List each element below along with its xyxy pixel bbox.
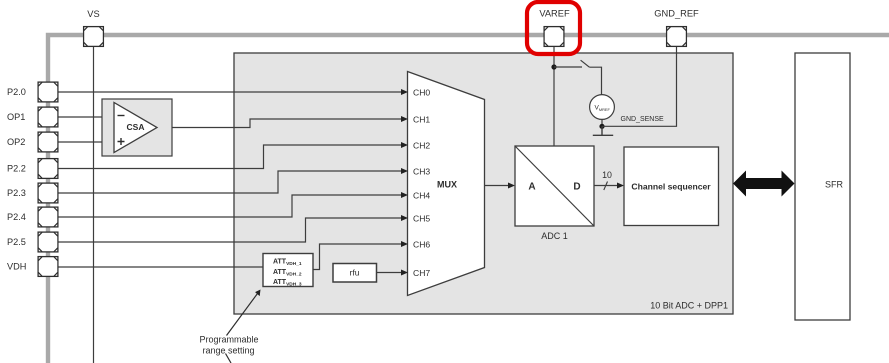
- arrowhead CH5: [401, 215, 408, 221]
- pin P2.5: [38, 232, 58, 252]
- svg-text:VDH: VDH: [7, 262, 26, 272]
- multiplexer MUX: [408, 72, 485, 296]
- svg-text:CH3: CH3: [413, 167, 430, 177]
- svg-text:D: D: [573, 182, 580, 193]
- block Channel sequencer: [624, 147, 719, 226]
- wire VDH to ATT block: [59, 266, 264, 268]
- svg-text:CH2: CH2: [413, 141, 430, 151]
- arrowhead CH1: [401, 116, 408, 122]
- svg-text:Programmable: Programmable: [199, 335, 258, 345]
- wire to switch: [554, 66, 582, 68]
- pin GND_REF: [667, 27, 687, 47]
- wire P2.2 to CH2: [59, 145, 402, 169]
- svg-text:GND_SENSE: GND_SENSE: [621, 116, 665, 123]
- attenuator block ATT_VDH: [263, 254, 313, 287]
- pin VAREF: [544, 27, 564, 47]
- junction VAREF node: [551, 64, 556, 69]
- op-amp CSA enclosure: [102, 99, 172, 156]
- pin P2.4: [38, 207, 58, 227]
- svg-text:VAREF: VAREF: [539, 9, 570, 19]
- op-amp CSA triangle: [114, 103, 157, 153]
- wire rfu to CH7: [377, 272, 402, 274]
- pin VDH: [38, 257, 58, 277]
- svg-text:P2.0: P2.0: [7, 87, 26, 97]
- pin P2.0: [38, 82, 58, 102]
- pin P2.2: [38, 159, 58, 179]
- junction GND_SENSE node: [599, 124, 604, 129]
- leader line downward: [226, 354, 232, 363]
- voltage source VMREF: [590, 95, 615, 120]
- wire VS vertical: [93, 47, 95, 363]
- svg-text:ADC 1: ADC 1: [541, 231, 568, 241]
- svg-text:A: A: [528, 182, 535, 193]
- arrowhead CH4: [401, 192, 408, 198]
- svg-text:CH0: CH0: [413, 88, 430, 98]
- wire OP2 to CSA non-inverting input: [59, 141, 115, 143]
- ground symbol: [593, 126, 613, 135]
- wire VMREF to GND_SENSE node: [601, 119, 603, 126]
- wire ADC output to Channel sequencer: [594, 185, 618, 187]
- switch (open) blade: [581, 60, 590, 67]
- arrowhead CH2: [401, 142, 408, 148]
- pin VS: [84, 27, 104, 47]
- wire MUX output to ADC: [485, 185, 509, 187]
- svg-text:CH6: CH6: [413, 240, 430, 250]
- pin OP1: [38, 107, 58, 127]
- wire GND_SENSE to GND_REF: [602, 47, 677, 126]
- wire P2.0 to CH0: [59, 91, 402, 93]
- arrowhead Channel sequencer input: [617, 183, 624, 189]
- svg-text:P2.2: P2.2: [7, 164, 26, 174]
- svg-text:CH1: CH1: [413, 115, 430, 125]
- block 10 Bit ADC + DPP1 (main gray module): [234, 53, 733, 314]
- pin OP2: [38, 132, 58, 152]
- block rfu: [333, 264, 377, 283]
- svg-text:10 Bit ADC + DPP1: 10 Bit ADC + DPP1: [650, 301, 728, 311]
- wire OP1 to CSA inverting input: [59, 116, 115, 118]
- svg-text:OP1: OP1: [7, 112, 25, 122]
- arrowhead CH0: [401, 89, 408, 95]
- svg-text:GND_REF: GND_REF: [654, 9, 699, 19]
- svg-text:OP2: OP2: [7, 137, 25, 147]
- block SFR: [795, 53, 850, 320]
- arrowhead leader to ATT: [255, 290, 260, 297]
- pin P2.3: [38, 183, 58, 203]
- svg-text:VS: VS: [87, 9, 99, 19]
- converter ADC 1: [515, 146, 594, 226]
- wire CSA output to CH1: [157, 119, 402, 128]
- svg-text:CH7: CH7: [413, 268, 430, 278]
- wire P2.3 to CH3: [59, 171, 402, 193]
- bus width slash: [604, 182, 608, 191]
- svg-text:range setting: range setting: [202, 346, 254, 356]
- svg-text:P2.5: P2.5: [7, 237, 26, 247]
- bidirectional bus arrow to SFR: [733, 171, 795, 197]
- leader line to ATT block: [227, 294, 258, 336]
- svg-text:rfu: rfu: [350, 268, 360, 278]
- svg-text:Channel sequencer: Channel sequencer: [631, 182, 711, 192]
- svg-text:MUX: MUX: [437, 180, 457, 190]
- svg-text:P2.3: P2.3: [7, 188, 26, 198]
- arrowhead CH7: [401, 270, 408, 276]
- svg-text:P2.4: P2.4: [7, 212, 26, 222]
- svg-text:10: 10: [602, 170, 612, 180]
- wire P2.5 to CH5: [59, 218, 402, 242]
- wire switch to VMREF source: [589, 67, 601, 95]
- arrowhead ADC input: [508, 183, 515, 189]
- op-amp CSA minus sign: [118, 115, 125, 117]
- highlight red box around VAREF: [527, 2, 580, 54]
- svg-text:CH4: CH4: [413, 191, 430, 201]
- wire P2.4 to CH4: [59, 195, 402, 217]
- converter ADC 1 diagonal: [515, 146, 594, 226]
- svg-text:CSA: CSA: [127, 122, 145, 132]
- svg-text:CH5: CH5: [413, 214, 430, 224]
- wire VAREF vertical to ADC: [553, 47, 555, 146]
- wire ATT block to CH6: [313, 244, 402, 270]
- arrowhead CH3: [401, 168, 408, 174]
- svg-text:SFR: SFR: [825, 180, 844, 190]
- arrowhead CH6: [401, 241, 408, 247]
- op-amp CSA plus sign: [118, 138, 125, 145]
